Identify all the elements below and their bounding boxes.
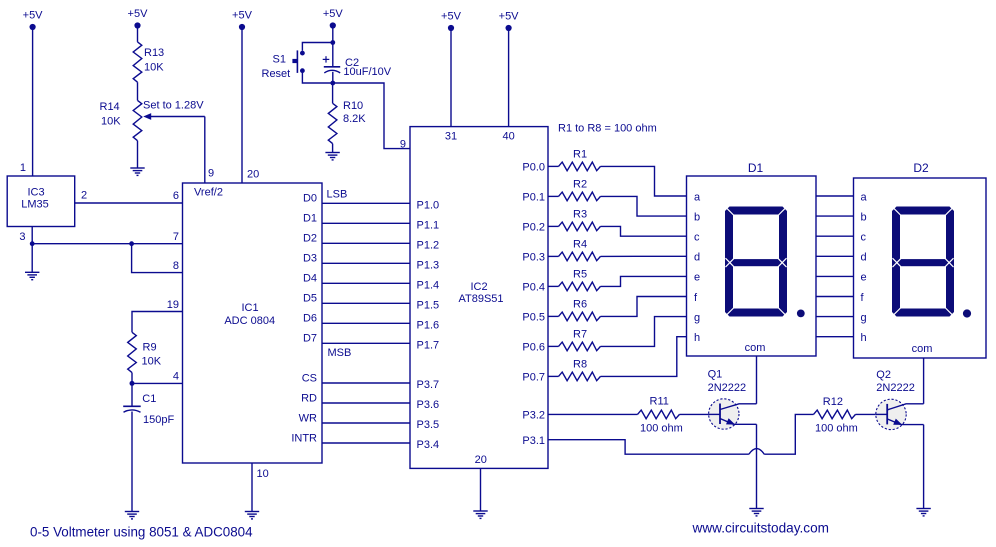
svg-text:D2: D2	[913, 161, 929, 175]
svg-text:8: 8	[173, 260, 179, 272]
svg-text:R12: R12	[823, 396, 843, 408]
svg-text:+5V: +5V	[232, 10, 253, 22]
svg-text:4: 4	[173, 371, 179, 383]
wire IC3 pin 3 down	[31, 227, 33, 244]
wire R13 to R14	[137, 82, 139, 100]
wire branch to IC1 pin 8	[132, 244, 183, 273]
svg-text:0-5 Voltmeter using 8051 & ADC: 0-5 Voltmeter using 8051 & ADC0804	[30, 525, 253, 540]
resistor R12 100 ohm	[814, 396, 858, 434]
svg-text:31: 31	[445, 131, 457, 143]
node junction (pin7/pin8 branch)	[129, 241, 134, 246]
svg-text:3: 3	[19, 231, 25, 243]
svg-text:com: com	[912, 343, 933, 355]
svg-text:IC1: IC1	[241, 302, 258, 314]
power +5V (IC1 pin 20 supply)	[232, 10, 253, 31]
wire +5V to IC3 pin 1	[32, 27, 34, 176]
wire D1 pin d to D2 pin d	[816, 255, 854, 257]
svg-text:R13: R13	[144, 47, 164, 59]
wire P0.2 to R3	[548, 225, 559, 227]
svg-text:2: 2	[81, 190, 87, 202]
decimal point (D1)	[797, 310, 805, 318]
svg-text:100 ohm: 100 ohm	[815, 422, 858, 434]
svg-text:7: 7	[173, 231, 179, 243]
svg-text:CS: CS	[302, 372, 317, 384]
wire P0.7 to R8	[548, 375, 559, 377]
transistor Q1 2N2222	[708, 369, 757, 429]
svg-text:9: 9	[208, 168, 214, 180]
ground (Q2 emitter)	[916, 509, 930, 516]
svg-text:20: 20	[475, 454, 487, 466]
svg-text:P1.3: P1.3	[417, 259, 440, 271]
wire R11 to Q1 base	[680, 413, 709, 415]
wire Q2 emitter to ground	[923, 425, 925, 509]
wire R5 to D1 pin e	[601, 276, 688, 286]
svg-text:P0.2: P0.2	[522, 222, 545, 234]
svg-text:P1.1: P1.1	[417, 219, 440, 231]
wire R12 to Q2 base	[856, 413, 876, 415]
seven-segment digit (D1)	[725, 207, 787, 317]
wire D5 to P1.5	[322, 302, 410, 304]
node junction bottom (S1/C2/R10/RST)	[330, 81, 335, 86]
svg-text:+5V: +5V	[499, 11, 520, 23]
wire junction to S1 top	[302, 43, 332, 51]
wire R1 to D1 pin a	[601, 166, 688, 196]
wire IC1 pin 19 to R9	[132, 312, 183, 333]
svg-text:R7: R7	[573, 329, 587, 341]
svg-text:P0.3: P0.3	[522, 252, 545, 264]
svg-text:+5V: +5V	[441, 11, 462, 23]
wire RD to P3.6	[322, 402, 410, 404]
svg-text:d: d	[694, 252, 700, 264]
wire D7 to P1.7	[322, 342, 410, 344]
svg-text:C1: C1	[142, 393, 156, 405]
resistor R8 100 ohm	[559, 359, 601, 381]
wire D1 com to Q1 collector	[756, 356, 758, 404]
svg-text:R10: R10	[343, 100, 363, 112]
svg-text:1: 1	[20, 162, 26, 174]
svg-text:+5V: +5V	[128, 8, 149, 20]
svg-text:P0.5: P0.5	[522, 312, 545, 324]
svg-text:R11: R11	[650, 396, 669, 408]
svg-text:h: h	[861, 332, 867, 344]
svg-text:R1: R1	[573, 149, 587, 161]
resistor R9 10K	[128, 332, 162, 372]
wire P0.3 to R4	[548, 255, 559, 257]
ground (below R14)	[130, 168, 144, 175]
IC3 LM35	[7, 176, 75, 227]
svg-text:20: 20	[247, 169, 259, 181]
node junction (R9/C1/pin4)	[130, 381, 135, 386]
svg-text:P0.4: P0.4	[522, 282, 545, 294]
svg-text:10: 10	[257, 468, 269, 480]
svg-text:a: a	[861, 191, 868, 203]
decimal point (D2)	[963, 309, 971, 317]
power +5V (IC2 pin 40 supply)	[499, 11, 520, 32]
seven-segment digit (D2)	[892, 207, 954, 317]
svg-text:40: 40	[502, 131, 514, 143]
svg-text:10uF/10V: 10uF/10V	[343, 66, 391, 78]
svg-text:R6: R6	[573, 299, 587, 311]
wire P0.0 to R1	[548, 165, 559, 167]
wire P0.5 to R6	[548, 315, 559, 317]
wire R14 to ground	[137, 141, 139, 168]
svg-text:R4: R4	[573, 239, 587, 251]
wire R6 to D1 pin f	[601, 297, 688, 317]
display D2 box	[854, 161, 987, 358]
display D1 box	[687, 161, 817, 356]
wire wiper to IC1 pin 9	[204, 117, 206, 184]
svg-text:P1.6: P1.6	[417, 319, 440, 331]
svg-text:10K: 10K	[101, 116, 121, 128]
wire D1 pin f to D2 pin f	[816, 296, 854, 298]
svg-text:+5V: +5V	[323, 8, 344, 20]
svg-text:D4: D4	[303, 273, 317, 285]
svg-text:c: c	[861, 232, 867, 244]
svg-text:S1: S1	[273, 54, 286, 66]
svg-text:100 ohm: 100 ohm	[640, 422, 683, 434]
wire R7 to D1 pin g	[601, 317, 688, 347]
svg-text:+5V: +5V	[23, 10, 44, 22]
svg-text:D2: D2	[303, 233, 317, 245]
node junction top (S1/C2)	[330, 40, 335, 45]
wire R2 to D1 pin b	[601, 196, 688, 216]
wire Q1 emitter to ground	[756, 424, 758, 508]
svg-text:R2: R2	[573, 179, 587, 191]
svg-text:P0.0: P0.0	[522, 162, 545, 174]
svg-text:Q1: Q1	[708, 369, 723, 381]
svg-text:19: 19	[167, 299, 179, 311]
svg-text:R9: R9	[143, 342, 157, 354]
wire D0 to P1.0	[322, 202, 410, 204]
svg-text:R1 to R8 = 100 ohm: R1 to R8 = 100 ohm	[558, 123, 657, 135]
svg-text:www.circuitstoday.com: www.circuitstoday.com	[692, 521, 829, 536]
svg-text:IC2: IC2	[470, 281, 487, 293]
svg-text:D5: D5	[303, 293, 317, 305]
svg-text:LSB: LSB	[327, 188, 348, 200]
svg-text:P3.5: P3.5	[417, 419, 440, 431]
ground (IC1 pin 10)	[245, 512, 259, 519]
wire S1 bottom to junction	[302, 73, 332, 83]
wire D2 to P1.2	[322, 242, 410, 244]
svg-text:D7: D7	[303, 333, 317, 345]
svg-text:e: e	[861, 272, 867, 284]
svg-text:Set to 1.28V: Set to 1.28V	[143, 100, 204, 112]
svg-text:P1.4: P1.4	[417, 279, 440, 291]
wire P0.4 to R5	[548, 285, 559, 287]
wire RST junction to IC2 pin 9	[333, 83, 410, 149]
resistor R10 8.2K	[328, 100, 366, 144]
transistor Q2 2N2222	[876, 369, 924, 430]
ground (below C1)	[125, 512, 139, 519]
svg-text:f: f	[861, 292, 865, 304]
svg-text:h: h	[694, 332, 700, 344]
wire C1 to ground	[131, 412, 133, 512]
resistor R11 100 ohm	[638, 396, 683, 435]
wire P3.2 to R11	[548, 413, 638, 415]
wire +5V down to junction	[332, 26, 334, 43]
wire IC1 pin 10 to ground	[251, 463, 253, 512]
power +5V (IC3 pin 1 supply)	[23, 10, 44, 31]
svg-text:6: 6	[173, 190, 179, 202]
svg-text:P3.7: P3.7	[417, 379, 440, 391]
wire INTR to P3.4	[322, 442, 410, 444]
wire R9 to pin4 node	[131, 373, 133, 384]
svg-text:g: g	[861, 312, 867, 324]
svg-text:f: f	[694, 292, 698, 304]
op-amp IC1 ADC 0804 box	[183, 183, 323, 463]
svg-text:R5: R5	[573, 269, 587, 281]
svg-text:P0.6: P0.6	[522, 342, 545, 354]
wire P3.1 to R12 (with crossover hop)	[548, 440, 749, 455]
svg-text:9: 9	[400, 139, 406, 151]
svg-text:P1.0: P1.0	[417, 199, 440, 211]
power +5V (IC2 pin 31 supply)	[441, 11, 462, 32]
wire pin3 node to ground	[31, 244, 33, 273]
svg-text:d: d	[861, 252, 867, 264]
svg-text:D3: D3	[303, 253, 317, 265]
svg-text:P3.6: P3.6	[417, 399, 440, 411]
switch S1 Reset	[262, 50, 305, 80]
svg-text:c: c	[694, 232, 700, 244]
svg-text:MSB: MSB	[328, 347, 352, 359]
svg-text:Q2: Q2	[876, 369, 891, 381]
wire D1 pin e to D2 pin e	[816, 275, 854, 277]
ground (IC2 pin 20)	[473, 511, 487, 518]
wire +5V to IC2 pin 31	[450, 28, 452, 127]
wire +5V to IC2 pin 40	[508, 28, 510, 127]
svg-text:D0: D0	[303, 193, 317, 205]
svg-text:WR: WR	[299, 412, 317, 424]
svg-text:P1.2: P1.2	[417, 239, 440, 251]
power +5V (R13 supply)	[128, 8, 149, 29]
svg-text:8.2K: 8.2K	[343, 113, 366, 125]
svg-text:2N2222: 2N2222	[708, 382, 747, 394]
svg-text:RD: RD	[301, 392, 317, 404]
svg-text:P0.1: P0.1	[522, 192, 545, 204]
wire D1 pin g to D2 pin g	[816, 316, 854, 318]
capacitor C2 10uF/10V	[323, 43, 392, 84]
svg-text:D1: D1	[303, 213, 317, 225]
svg-text:b: b	[861, 211, 867, 223]
svg-text:AT89S51: AT89S51	[458, 293, 503, 305]
svg-text:P1.7: P1.7	[417, 339, 440, 351]
svg-text:b: b	[694, 211, 700, 223]
wire P0.1 to R2	[548, 195, 559, 197]
svg-text:INTR: INTR	[291, 432, 317, 444]
svg-text:P3.2: P3.2	[522, 410, 545, 422]
wire D1 pin a to D2 pin a	[816, 195, 854, 197]
wire D6 to P1.6	[322, 322, 410, 324]
svg-text:g: g	[694, 312, 700, 324]
svg-text:D6: D6	[303, 313, 317, 325]
potentiometer R14 10K	[100, 100, 142, 140]
svg-text:LM35: LM35	[21, 199, 49, 211]
capacitor C1 150pF	[123, 383, 174, 426]
resistor R5 100 ohm	[559, 269, 601, 291]
svg-text:com: com	[745, 342, 766, 354]
svg-text:Vref/2: Vref/2	[194, 187, 223, 199]
svg-text:150pF: 150pF	[143, 414, 174, 426]
resistor R3 100 ohm	[559, 209, 601, 231]
svg-text:IC3: IC3	[27, 187, 44, 199]
svg-text:2N2222: 2N2222	[876, 382, 915, 394]
wire R4 to D1 pin d	[601, 255, 688, 257]
ground (below R10)	[325, 153, 339, 160]
wire R8 to D1 pin h	[601, 337, 688, 377]
wire D2 com to Q2 collector	[923, 358, 925, 404]
svg-text:ADC 0804: ADC 0804	[224, 315, 275, 327]
wire node to IC1 pin 7	[32, 243, 182, 245]
svg-text:P3.4: P3.4	[417, 439, 440, 451]
wire IC3 pin 2 to IC1 pin 6	[75, 202, 183, 204]
wire junction to R10	[332, 83, 334, 103]
svg-text:R14: R14	[100, 101, 120, 113]
wire node to IC1 pin 4	[132, 382, 183, 384]
wire D3 to P1.3	[322, 262, 410, 264]
svg-text:a: a	[694, 191, 701, 203]
power +5V (S1/C2 supply)	[323, 8, 344, 29]
wire +5V to IC1 pin 20	[241, 27, 243, 183]
svg-text:D1: D1	[748, 161, 764, 175]
resistor R7 100 ohm	[559, 329, 601, 351]
resistor R4 100 ohm	[559, 239, 601, 261]
svg-text:e: e	[694, 272, 700, 284]
wire P0.6 to R7	[548, 345, 559, 347]
wire IC2 pin 20 to ground	[480, 468, 482, 511]
svg-text:R8: R8	[573, 359, 587, 371]
wire R3 to D1 pin c	[601, 226, 688, 236]
wire D1 to P1.1	[322, 222, 410, 224]
wire D4 to P1.4	[322, 282, 410, 284]
wire D1 pin h to D2 pin h	[816, 336, 854, 338]
svg-text:Reset: Reset	[262, 68, 291, 80]
resistor R6 100 ohm	[559, 299, 601, 321]
op-amp IC2 AT89S51 box	[410, 127, 548, 469]
svg-text:10K: 10K	[144, 62, 164, 74]
node junction (IC3 pin3 / gnd / pin7)	[30, 241, 35, 246]
wire +5V to R13	[137, 26, 139, 42]
resistor R2 100 ohm	[559, 179, 601, 201]
wire D1 pin c to D2 pin c	[816, 235, 854, 237]
resistor R1 100 ohm	[559, 149, 601, 171]
wire CS to P3.7	[322, 382, 410, 384]
wire D1 pin b to D2 pin b	[816, 215, 854, 217]
wire WR to P3.5	[322, 422, 410, 424]
svg-text:P3.1: P3.1	[522, 435, 545, 447]
svg-text:10K: 10K	[142, 356, 162, 368]
ground (Q1 emitter)	[749, 509, 763, 516]
svg-text:P0.7: P0.7	[522, 372, 545, 384]
wiper arrow of R14 (Set to 1.28V)	[143, 100, 205, 120]
wire R10 to ground	[332, 144, 334, 153]
svg-text:R3: R3	[573, 209, 587, 221]
svg-text:P1.5: P1.5	[417, 299, 440, 311]
resistor R13 10K	[133, 42, 164, 82]
ground (below IC3)	[25, 272, 39, 279]
